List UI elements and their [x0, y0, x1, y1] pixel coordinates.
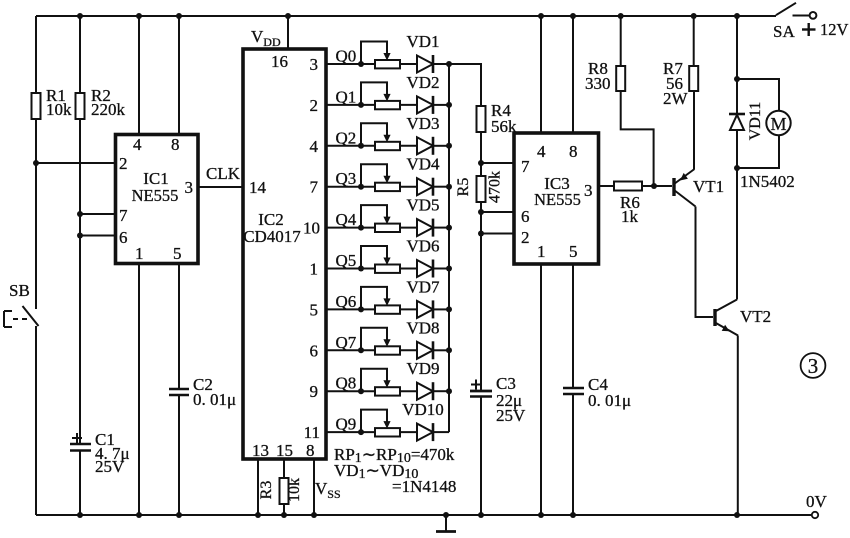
- svg-text:3: 3: [310, 55, 319, 74]
- op-amp IC2 CD4017 box: [243, 49, 326, 459]
- transistor VT2: [715, 300, 738, 336]
- diode VD10: [400, 423, 449, 441]
- wire IC1 pin7: [80, 213, 115, 215]
- wire bus to R4: [449, 64, 481, 106]
- label +12V: [802, 28, 816, 30]
- potentiometer RP3: [361, 123, 400, 150]
- svg-text:8: 8: [569, 142, 578, 161]
- svg-text:1N5402: 1N5402: [740, 172, 795, 191]
- potentiometer RP4: [361, 164, 400, 191]
- wire top +12V rail: [36, 15, 776, 17]
- node IC3 pin4 wire: [540, 16, 542, 133]
- wire IC2 pin 7 output Q3: [326, 186, 375, 188]
- svg-text:NE555: NE555: [534, 190, 581, 209]
- svg-text:R5: R5: [455, 178, 472, 197]
- wire IC2 pin15 top: [283, 459, 285, 478]
- svg-text:6: 6: [521, 207, 530, 226]
- wire IC2 pin13 to 0V: [257, 459, 259, 515]
- diode VD1: [400, 55, 449, 73]
- wire IC1 pin3 to IC2 pin14: [198, 186, 243, 188]
- svg-text:10: 10: [303, 219, 320, 238]
- wire IC2 pin 11 output Q9: [326, 431, 375, 433]
- svg-text:8: 8: [171, 135, 180, 154]
- resistor R2: [76, 93, 85, 119]
- svg-text:3: 3: [808, 354, 819, 378]
- svg-text:2: 2: [310, 96, 319, 115]
- wire IC3 pin3 to R6: [599, 185, 615, 187]
- potentiometer RP5: [361, 205, 400, 232]
- wire IC2 pin 1 output Q5: [326, 268, 375, 270]
- svg-text:7: 7: [521, 157, 530, 176]
- svg-text:Q2: Q2: [336, 128, 357, 147]
- svg-text:Q1: Q1: [336, 87, 357, 106]
- svg-text:VD4: VD4: [406, 155, 440, 174]
- svg-text:R3: R3: [258, 481, 275, 500]
- node figure number 3: [801, 353, 826, 378]
- node +12V terminal: [810, 12, 817, 19]
- svg-text:0. 01μ: 0. 01μ: [193, 390, 236, 409]
- svg-text:220k: 220k: [91, 100, 126, 119]
- transistor VT1: [674, 169, 696, 207]
- svg-text:12V: 12V: [820, 20, 849, 39]
- svg-text:15: 15: [276, 441, 293, 460]
- wire IC2 pin 3 output Q0: [326, 63, 375, 65]
- svg-text:Q7: Q7: [336, 333, 357, 352]
- diode VD3: [400, 137, 449, 155]
- svg-text:1: 1: [135, 244, 144, 263]
- wire +12V to motor branch: [736, 16, 738, 114]
- svg-text:Q8: Q8: [336, 374, 357, 393]
- wire R7 top: [693, 16, 695, 66]
- motor M: [766, 111, 790, 135]
- node IC1 pin4 wire: [138, 16, 140, 134]
- wire IC1 pin2: [36, 162, 115, 164]
- wire R3 to 0V: [283, 504, 285, 515]
- wire VT2 emitter to 0V: [737, 336, 739, 516]
- resistor R7: [689, 66, 698, 91]
- svg-text:Q5: Q5: [336, 251, 357, 270]
- svg-text:2: 2: [521, 228, 530, 247]
- wire R6 to VT1 base: [642, 185, 672, 187]
- wire IC2 pin8 to 0V: [313, 459, 315, 515]
- resistor R5: [477, 176, 486, 202]
- wire IC2 pin 2 output Q1: [326, 104, 375, 106]
- wire R2 branch: [79, 16, 81, 93]
- wire motor branch bottom: [737, 135, 779, 168]
- diode VD9: [400, 382, 449, 400]
- node 0V terminal: [812, 512, 818, 518]
- svg-text:3: 3: [584, 181, 593, 200]
- wire IC3 pin2: [481, 233, 514, 235]
- wire SB to bottom rail: [35, 326, 37, 515]
- junction dots bottom rail: [77, 512, 83, 518]
- wire motor branch top: [737, 79, 779, 111]
- svg-text:1k: 1k: [621, 207, 639, 226]
- svg-text:VT2: VT2: [740, 307, 771, 326]
- potentiometer RP6: [361, 246, 400, 273]
- svg-text:Q6: Q6: [336, 292, 357, 311]
- resistor R4: [477, 106, 486, 132]
- svg-text:16: 16: [271, 52, 288, 71]
- capacitor C3: [470, 390, 492, 393]
- svg-text:10k: 10k: [286, 478, 303, 502]
- wire left edge drop (R1/SB branch top): [35, 16, 37, 93]
- potentiometer RP7: [361, 287, 400, 314]
- svg-text:9: 9: [310, 382, 319, 401]
- svg-text:VD10: VD10: [402, 400, 444, 419]
- potentiometer RP8: [361, 328, 400, 355]
- wire R5 to C3: [480, 202, 482, 390]
- svg-text:6: 6: [119, 228, 128, 247]
- wire bottom 0V rail: [36, 514, 812, 516]
- wire VT1 collector to VT2 base: [696, 207, 714, 318]
- svg-text:NE555: NE555: [132, 186, 179, 205]
- svg-text:CLK: CLK: [206, 164, 241, 183]
- svg-text:5: 5: [310, 300, 319, 319]
- svg-text:10k: 10k: [46, 100, 72, 119]
- wire IC1 pin6: [80, 235, 115, 237]
- svg-text:Q3: Q3: [336, 169, 357, 188]
- svg-text:5: 5: [569, 242, 578, 261]
- resistor R1: [32, 93, 41, 309]
- wire IC1 pin1 to 0V: [138, 264, 140, 516]
- wire R7 to VT1 emitter: [693, 91, 695, 169]
- resistor R3: [280, 478, 289, 504]
- capacitor C4: [563, 387, 584, 390]
- svg-text:VD7: VD7: [406, 277, 440, 296]
- op-amp IC1 NE555 box: [116, 135, 199, 264]
- node IC3 pin8 wire: [572, 16, 574, 133]
- switch SB actuator: [3, 311, 5, 327]
- svg-text:1: 1: [537, 242, 546, 261]
- svg-text:13: 13: [252, 441, 269, 460]
- svg-text:2W: 2W: [663, 89, 689, 108]
- svg-text:SA: SA: [773, 22, 795, 41]
- diode VD5: [400, 219, 449, 237]
- wire IC2 pin 5 output Q6: [326, 308, 375, 310]
- svg-text:Q4: Q4: [336, 210, 357, 229]
- wire diode cathode bus: [448, 64, 450, 432]
- svg-text:14: 14: [249, 178, 267, 197]
- wire IC2 pin 10 output Q4: [326, 227, 375, 229]
- svg-text:7: 7: [310, 178, 319, 197]
- wire VT2 collector up: [736, 168, 738, 300]
- wire R8 top: [620, 16, 622, 66]
- potentiometer RP1: [361, 42, 400, 69]
- wire IC3 pin5 to C4: [572, 264, 574, 388]
- svg-text:VD5: VD5: [406, 196, 439, 215]
- diode VD11: [729, 113, 745, 116]
- svg-text:M: M: [770, 114, 786, 134]
- diode VD8: [400, 341, 449, 359]
- svg-text:VD3: VD3: [406, 114, 439, 133]
- svg-text:25V: 25V: [95, 457, 125, 476]
- svg-text:VD8: VD8: [406, 318, 439, 337]
- wire IC2 pin 9 output Q8: [326, 390, 375, 392]
- svg-text:CD4017: CD4017: [243, 227, 301, 246]
- wire R8 to VT1 base: [621, 91, 654, 186]
- junction dots top rail: [77, 13, 83, 19]
- svg-text:VD1: VD1: [406, 32, 439, 51]
- svg-text:VD11: VD11: [747, 102, 764, 141]
- resistor R8: [616, 66, 625, 91]
- svg-text:25V: 25V: [496, 406, 526, 425]
- svg-text:0. 01μ: 0. 01μ: [588, 391, 631, 410]
- svg-text:1: 1: [310, 260, 319, 279]
- svg-text:5: 5: [173, 244, 182, 263]
- svg-text:4: 4: [133, 135, 142, 154]
- svg-text:2: 2: [119, 154, 128, 173]
- svg-text:=1N4148: =1N4148: [392, 477, 456, 496]
- wire IC2 pin 6 output Q7: [326, 349, 375, 351]
- capacitor C1: [70, 443, 91, 446]
- resistor R6: [614, 182, 642, 191]
- switch SB lever: [23, 306, 39, 326]
- potentiometer RP2: [361, 82, 400, 109]
- wire R4 to R5: [480, 132, 482, 176]
- svg-text:4: 4: [537, 142, 546, 161]
- svg-text:7: 7: [119, 206, 128, 225]
- potentiometer RP10: [361, 410, 400, 437]
- wire R2 bottom to pins 7/6 and C1: [79, 119, 81, 444]
- svg-text:0V: 0V: [806, 492, 828, 511]
- svg-text:8: 8: [306, 441, 315, 460]
- svg-text:VD6: VD6: [406, 237, 439, 256]
- diode VD4: [400, 178, 449, 196]
- wire IC3 pin6: [481, 211, 514, 213]
- node IC2 VDD wire: [287, 16, 289, 49]
- potentiometer RP9: [361, 369, 400, 396]
- svg-text:VT1: VT1: [693, 177, 724, 196]
- ground: [445, 515, 447, 531]
- capacitor C2: [169, 388, 189, 391]
- switch SA: [776, 3, 796, 15]
- wire SA stub to +12V terminal: [793, 15, 810, 17]
- wire IC3 pin1 to 0V: [540, 264, 542, 515]
- diode VD6: [400, 260, 449, 278]
- wire IC1 pin5 to C2: [178, 264, 180, 390]
- svg-text:Q9: Q9: [336, 415, 357, 434]
- svg-text:11: 11: [304, 423, 320, 442]
- svg-text:VD2: VD2: [406, 73, 439, 92]
- wire IC3 pin7: [481, 162, 514, 164]
- svg-text:VD9: VD9: [406, 359, 439, 378]
- op-amp IC3 NE555 box: [514, 133, 599, 264]
- wire IC2 pin 4 output Q2: [326, 145, 375, 147]
- svg-text:4: 4: [310, 137, 319, 156]
- diode VD2: [400, 96, 449, 114]
- svg-text:SB: SB: [9, 281, 30, 300]
- svg-text:Q0: Q0: [336, 47, 357, 66]
- svg-text:6: 6: [310, 341, 319, 360]
- node IC1 pin8 wire: [178, 16, 180, 134]
- diode VD7: [400, 300, 449, 318]
- svg-text:470k: 470k: [487, 171, 504, 203]
- svg-text:3: 3: [185, 178, 194, 197]
- svg-text:330: 330: [585, 74, 611, 93]
